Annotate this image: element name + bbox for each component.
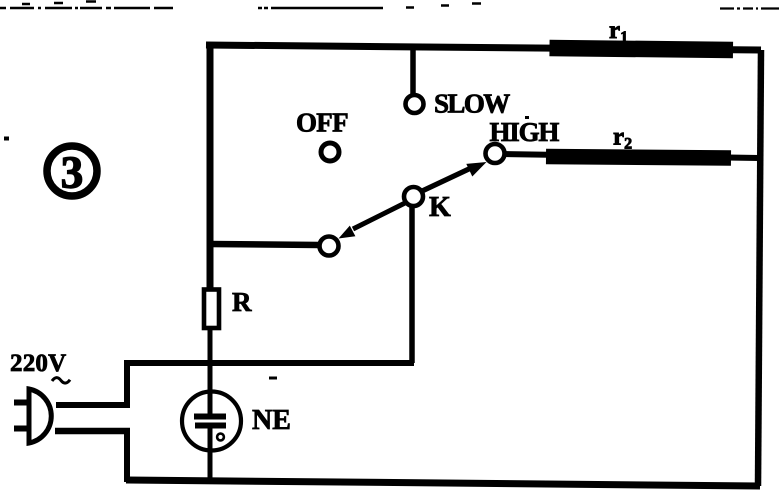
stray solid rule top-middle — [258, 7, 383, 10]
resistor R (rectangle) — [204, 290, 219, 329]
contact OFF (circle) — [321, 143, 339, 161]
AC tilde symbol — [52, 378, 70, 383]
svg-text:HIGH: HIGH — [490, 117, 560, 147]
stray dash-dot rule far top-right — [720, 7, 779, 9]
svg-text:K: K — [429, 192, 451, 223]
wire: lamp top lead — [208, 392, 213, 414]
lamp electrode lower plate — [195, 423, 226, 429]
neon lamp NE (envelope) — [182, 392, 241, 451]
wire: bottom horizontal bus — [126, 480, 760, 486]
wire: HIGH contact to right rail — [503, 154, 759, 158]
svg-text:NE: NE — [252, 405, 291, 436]
svg-text:SLOW: SLOW — [434, 89, 510, 119]
wire: left vertical rail (top bus down to resistor R) — [207, 42, 214, 291]
wire: plug lower lead — [55, 428, 130, 435]
switch blade toward HIGH with arrowhead — [420, 168, 471, 192]
stray dashed rule top-left — [0, 2, 173, 9]
contact SLOW (circle) — [406, 95, 424, 113]
switch common contact (circle) — [320, 237, 339, 256]
svg-text:3: 3 — [61, 148, 84, 198]
contact HIGH (circle) — [486, 144, 505, 163]
resistor r1 (thick bar on top bus) — [550, 48, 734, 50]
svg-text:220V: 220V — [10, 350, 66, 377]
svg-text:r2: r2 — [613, 124, 632, 153]
mains plug body — [29, 389, 51, 443]
wire: K pivot down to middle bus — [409, 206, 415, 363]
plug prong upper — [14, 400, 28, 406]
lamp electrode upper plate — [194, 414, 226, 420]
wire: middle horizontal bus — [124, 360, 414, 366]
resistor r2 (thick bar on HIGH wire) — [546, 157, 731, 159]
scan specks — [4, 116, 529, 380]
wire: lamp bottom lead to bottom bus — [208, 428, 213, 483]
wire: top horizontal bus — [206, 45, 761, 50]
plug prong lower — [14, 426, 28, 432]
wire: plug upper lead — [56, 402, 130, 408]
wire: right vertical rail — [758, 50, 761, 486]
svg-text:R: R — [232, 287, 252, 317]
switch K pivot (circle) — [404, 187, 423, 206]
wire: branch from top bus to SLOW contact — [410, 45, 416, 95]
svg-text:r1: r1 — [609, 17, 628, 46]
switch blade toward common contact with arrowhead — [353, 202, 407, 229]
wire: upper lead riser to middle bus — [124, 360, 130, 407]
figure number badge (3) — [47, 146, 97, 198]
stray dashes top-right — [406, 4, 481, 8]
svg-text:OFF: OFF — [296, 108, 348, 138]
wire: lower lead drop to bottom bus — [124, 429, 130, 482]
lamp tip dot — [217, 434, 224, 441]
wire: resistor R to NE lamp — [208, 328, 213, 414]
wire: left rail to switch common contact — [210, 244, 319, 245]
